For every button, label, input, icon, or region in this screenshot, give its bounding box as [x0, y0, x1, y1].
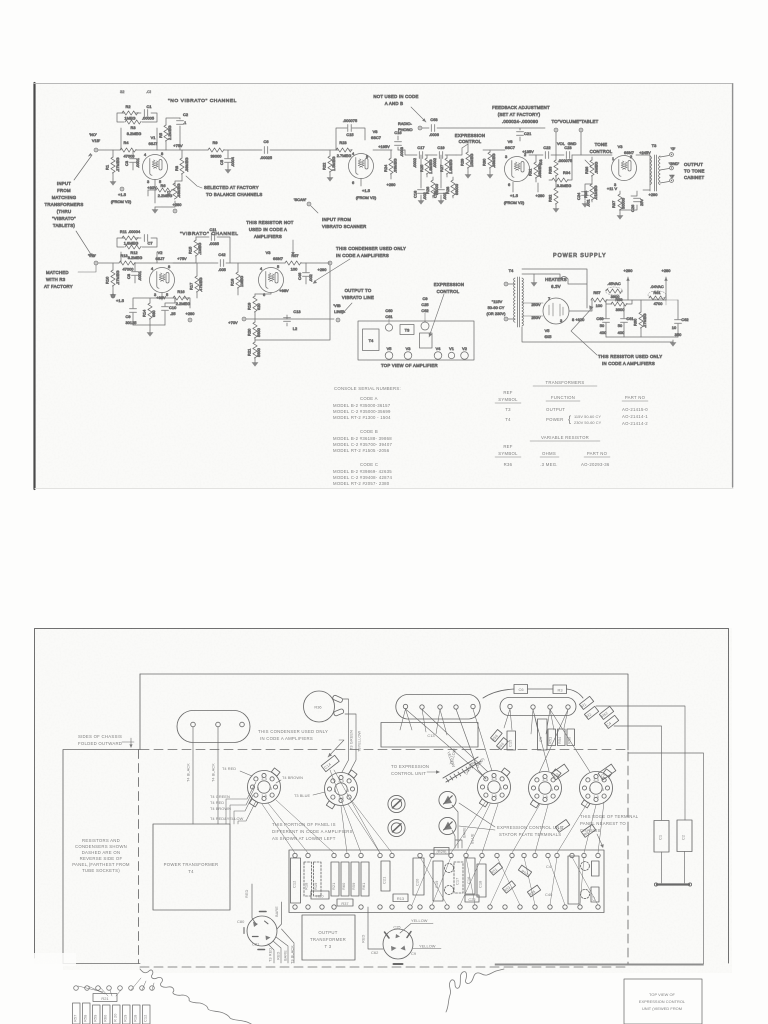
wire plate V8 to coupling [373, 149, 405, 151]
tube socket V2 layout [580, 769, 613, 808]
wire T4 black pair [193, 727, 218, 824]
svg-text:.002: .002 [308, 274, 313, 282]
tube V3 [612, 144, 637, 187]
svg-text:2.2MEG: 2.2MEG [176, 301, 191, 306]
sheet right edge [732, 84, 734, 487]
note sides of chassis folded outward [78, 734, 122, 746]
svg-text:R57: R57 [73, 1015, 78, 1022]
svg-text:C61: C61 [385, 314, 392, 319]
resistor R57 psu [591, 290, 666, 308]
capacitor C63 [431, 125, 434, 132]
svg-text:47000: 47000 [123, 154, 135, 159]
svg-text:R18: R18 [230, 279, 235, 286]
svg-text:C62: C62 [371, 950, 378, 955]
svg-text:CODE A: CODE A [360, 396, 378, 401]
svg-text:V5: V5 [545, 328, 550, 333]
svg-text:PANEL,(FARTHEST FROM: PANEL,(FARTHEST FROM [72, 862, 130, 867]
fold line dashed bottom [140, 966, 628, 968]
resistor R14 [142, 303, 157, 325]
outer border [35, 629, 729, 964]
svg-text:+30V: +30V [147, 185, 157, 190]
svg-text:FOLDED OUTWARD: FOLDED OUTWARD [78, 741, 122, 746]
svg-text:.0002: .0002 [412, 158, 417, 168]
svg-text:R 20: R 20 [113, 1013, 118, 1022]
capacitor C13 box [381, 723, 478, 748]
svg-text:NOT USED IN CODE: NOT USED IN CODE [373, 94, 418, 99]
svg-text:C62: C62 [681, 317, 688, 322]
svg-text:OUTPUT: OUTPUT [684, 162, 703, 167]
resistor R21 under box [93, 994, 117, 1002]
capacitor C62 psu [672, 300, 689, 337]
svg-text:R21: R21 [101, 996, 108, 1001]
svg-text:STATOR PLATE TERMINALS: STATOR PLATE TERMINALS [499, 832, 561, 837]
svg-text:CONDENSERS SHOWN: CONDENSERS SHOWN [75, 844, 127, 849]
resistor R10 to ground [105, 263, 121, 299]
wire bus into V8 [336, 149, 352, 151]
node VIB input terminal [88, 253, 98, 265]
resistor R5 [158, 118, 180, 150]
svg-text:R61: R61 [653, 290, 660, 295]
ground psu [670, 340, 677, 347]
note to expression control unit [391, 764, 429, 776]
svg-text:DASHED ARE ON: DASHED ARE ON [82, 850, 121, 855]
svg-text:T4 GREEN: T4 GREEN [210, 794, 230, 799]
svg-text:R11 .00004: R11 .00004 [120, 229, 141, 234]
resistor R19 dashed [313, 862, 321, 896]
svg-text:R18: R18 [133, 1015, 138, 1022]
svg-text:RED: RED [276, 951, 281, 960]
svg-text:AO-21414-2: AO-21414-2 [622, 421, 648, 426]
svg-text:2: 2 [487, 786, 489, 791]
label C4 [546, 864, 552, 869]
white underlying paper [34, 970, 403, 1024]
capacitor C18 panel [477, 864, 486, 897]
svg-text:R8: R8 [174, 166, 179, 171]
svg-text:R27: R27 [439, 165, 444, 172]
chassis outline top [140, 674, 628, 750]
sheet bottom edge [35, 488, 733, 490]
resistor R24 [383, 150, 398, 179]
strip wires [78, 978, 154, 996]
svg-text:C63: C63 [430, 117, 437, 122]
svg-text:C81: C81 [252, 942, 259, 947]
svg-text:C80: C80 [237, 919, 245, 924]
tube socket V4 layout [478, 768, 511, 807]
hole [454, 705, 458, 709]
svg-text:10: 10 [672, 325, 677, 330]
svg-text:T4 BROWN: T4 BROWN [210, 806, 231, 811]
svg-text:2.2MEG: 2.2MEG [158, 193, 173, 198]
svg-text:CABINET: CABINET [684, 175, 704, 180]
svg-text:+280: +280 [387, 182, 397, 187]
svg-text:WITH R3: WITH R3 [46, 277, 66, 282]
hole [548, 705, 552, 709]
svg-text:+280: +280 [173, 202, 183, 207]
label T3 BLACK [290, 945, 295, 964]
svg-text:1 6: 1 6 [491, 793, 497, 798]
svg-text:TUBE SOCKETS): TUBE SOCKETS) [82, 868, 120, 873]
svg-text:T3 BLUE: T3 BLUE [294, 793, 310, 798]
capacitor C14 [321, 755, 339, 771]
resistor R50 board [567, 729, 575, 746]
svg-text:T3 RED: T3 RED [268, 948, 273, 962]
svg-text:R30: R30 [482, 158, 487, 166]
svg-text:PART NO: PART NO [625, 395, 646, 400]
resistor R50 rotated [489, 863, 502, 875]
capacitor C60 psu [596, 304, 609, 337]
resistor R28 [452, 177, 454, 198]
svg-text:R34: R34 [563, 170, 571, 175]
svg-text:C2: C2 [681, 835, 686, 840]
svg-text:.0001: .0001 [135, 158, 140, 168]
label RED vertical [244, 889, 249, 898]
note this resistor used only [571, 305, 662, 366]
socket C80 C81 [237, 912, 277, 950]
svg-text:C60: C60 [596, 316, 604, 321]
capacitor C60 C61 can [385, 308, 393, 331]
svg-text:400: 400 [600, 330, 607, 335]
resistor R18 under [133, 1005, 141, 1024]
svg-text:C26: C26 [630, 205, 635, 212]
svg-text:4700: 4700 [654, 301, 664, 306]
svg-text:AT FACTORY: AT FACTORY [44, 284, 73, 289]
svg-text:6X5: 6X5 [544, 334, 551, 339]
svg-text:2.7MEG: 2.7MEG [337, 153, 352, 158]
capacitor C3 [124, 150, 140, 170]
svg-text:V5: V5 [387, 346, 392, 351]
label T4 BROWN [210, 806, 231, 811]
svg-text:V3: V3 [618, 144, 623, 149]
svg-text:PART NO: PART NO [587, 451, 608, 456]
svg-text:R36: R36 [504, 462, 513, 467]
hole [191, 722, 196, 727]
svg-text:AS SHOWN AT LOWER LEFT: AS SHOWN AT LOWER LEFT [272, 836, 336, 841]
svg-text:REVERSE SIDE OF: REVERSE SIDE OF [80, 856, 123, 861]
svg-text:.39MEG: .39MEG [537, 163, 542, 178]
oblong hole middle [396, 695, 480, 720]
resistor R6 [148, 183, 175, 198]
tube V3 [404, 346, 412, 359]
svg-text:3: 3 [560, 318, 562, 323]
capacitor C19 panel [433, 861, 443, 901]
svg-text:+280: +280 [536, 193, 546, 198]
svg-text:FROM: FROM [57, 188, 71, 193]
svg-text:+70V: +70V [228, 320, 238, 325]
svg-text:THIS PORTION OF PANEL IS: THIS PORTION OF PANEL IS [272, 822, 336, 827]
svg-text:6SC7: 6SC7 [505, 145, 515, 150]
svg-text:VIBRATO LINE: VIBRATO LINE [342, 295, 374, 300]
svg-text:R21: R21 [331, 883, 336, 890]
svg-text:R25: R25 [419, 165, 424, 172]
label YELLOW b [419, 944, 436, 949]
svg-text:.000075: .000075 [558, 158, 572, 163]
svg-text:R15: R15 [188, 247, 193, 254]
capacitor C26 bypass [620, 191, 644, 212]
hole [420, 705, 424, 709]
svg-text:+280: +280 [662, 268, 672, 273]
svg-text:1.8MEG: 1.8MEG [124, 241, 139, 246]
svg-text:R36: R36 [314, 705, 321, 710]
wire main bus vibrato [98, 262, 330, 264]
svg-text:680: 680 [151, 310, 156, 317]
hole [508, 704, 512, 708]
svg-text:TO"VOLUME"TABLET: TO"VOLUME"TABLET [551, 119, 598, 124]
capacitor C16 [394, 130, 404, 157]
svg-text:BARE: BARE [274, 906, 279, 917]
svg-text:{: { [568, 414, 571, 424]
svg-text:5: 5 [602, 787, 604, 792]
svg-text:.3MEG: .3MEG [594, 162, 599, 174]
capacitor C5 board [538, 719, 548, 750]
svg-text:PANEL NEAREST TO: PANEL NEAREST TO [580, 821, 626, 826]
svg-text:35000: 35000 [621, 197, 626, 209]
svg-text:R19: R19 [247, 303, 252, 310]
svg-text:.25: .25 [170, 311, 176, 316]
svg-text:HEATERS: HEATERS [545, 277, 567, 282]
svg-text:R4: R4 [123, 140, 129, 145]
wire arrow to VIB [76, 231, 92, 256]
svg-text:6SJ7: 6SJ7 [155, 256, 164, 261]
chassis outline box [358, 321, 474, 360]
capacitor C17 [419, 152, 422, 159]
capacitor C1 tubular [654, 821, 669, 853]
capacitor C22 [538, 145, 551, 165]
svg-text:YELLOW: YELLOW [419, 944, 436, 949]
svg-text:.0001: .0001 [137, 271, 142, 281]
svg-text:(OR 230V): (OR 230V) [486, 311, 506, 316]
svg-text:CONTROL: CONTROL [437, 289, 460, 294]
wire main bus no-vib [98, 149, 336, 151]
wire fans oblong to sockets [400, 709, 492, 776]
svg-text:6SC7: 6SC7 [371, 135, 381, 140]
svg-text:3 4: 3 4 [491, 776, 497, 781]
svg-text:T3 BLACK: T3 BLACK [290, 945, 295, 964]
svg-text:50-60 CY: 50-60 CY [488, 305, 505, 310]
transformer T3 box [400, 325, 414, 335]
capacitor C24 to ground [585, 184, 592, 200]
svg-text:R36: R36 [584, 167, 589, 174]
svg-text:C5: C5 [219, 160, 224, 165]
svg-text:30125: 30125 [125, 320, 136, 325]
output transformer T3 box [302, 915, 355, 960]
label T3 RED [268, 948, 273, 962]
svg-text:MODEL RT-2 #1505 -2056: MODEL RT-2 #1505 -2056 [333, 448, 390, 453]
svg-text:T4: T4 [505, 417, 511, 422]
svg-text:R33: R33 [548, 167, 553, 174]
svg-text:TONE: TONE [595, 142, 608, 147]
svg-text:C22: C22 [543, 145, 550, 150]
screw stud D stator [439, 817, 456, 834]
wire to vib line [255, 265, 334, 340]
svg-text:AO-20293-36: AO-20293-36 [581, 462, 610, 467]
node +1.5 FROM V2 [504, 182, 525, 205]
svg-text:R18: R18 [304, 883, 309, 890]
tone control pot [576, 142, 613, 208]
svg-text:INPUT FROM: INPUT FROM [322, 217, 351, 222]
svg-text:C3: C3 [124, 161, 129, 166]
capacitor C8 box rotated [598, 764, 616, 780]
resistor R8 [174, 150, 189, 181]
svg-text:R20: R20 [247, 328, 252, 336]
svg-text:AO-21415-0: AO-21415-0 [622, 407, 648, 412]
svg-text:THIS CONDENSER USED ONLY: THIS CONDENSER USED ONLY [258, 729, 328, 734]
svg-text:+98V: +98V [279, 288, 289, 293]
svg-text:6.3V: 6.3V [551, 284, 561, 289]
svg-text:C24: C24 [576, 192, 581, 200]
svg-text:6: 6 [352, 180, 354, 185]
heater circuit [522, 269, 587, 308]
svg-text:+11 V: +11 V [607, 186, 618, 191]
svg-text:MODEL B-2 #39869- 42635: MODEL B-2 #39869- 42635 [333, 469, 392, 474]
svg-text:R21: R21 [247, 349, 252, 356]
svg-text:32: 32 [120, 89, 124, 94]
wire volume lines [556, 132, 581, 155]
svg-text:MATCHING: MATCHING [52, 195, 77, 200]
svg-text:1MEG: 1MEG [239, 276, 244, 287]
svg-text:C12: C12 [143, 1015, 148, 1022]
resistor R15 [173, 237, 202, 263]
svg-text:T 3: T 3 [325, 944, 332, 949]
wire C1 C2 to bar [662, 852, 685, 884]
svg-text:5: 5 [366, 154, 368, 159]
svg-text:3: 3 [505, 154, 507, 159]
svg-text:EXPRESSION: EXPRESSION [455, 133, 485, 138]
svg-text:.0003: .0003 [399, 147, 404, 157]
svg-text:7: 7 [548, 296, 550, 301]
resistor R54 rotated [527, 885, 540, 897]
svg-text:6SN7: 6SN7 [624, 150, 634, 155]
resistor R65 dashed circle [580, 889, 589, 898]
svg-text:5600: 5600 [256, 327, 261, 337]
svg-text:115V 50-60 CY: 115V 50-60 CY [574, 414, 601, 419]
label 115V 50-60CY [486, 299, 506, 316]
node +1.5 (FROM V2) [111, 187, 132, 204]
wire plate bus [529, 154, 610, 156]
svg-text:MATCHED: MATCHED [46, 270, 69, 275]
svg-text:OUTPUT: OUTPUT [318, 930, 337, 935]
resistor R53 rotated [502, 881, 515, 893]
tube V1 [448, 346, 454, 359]
potentiometer R36 body [304, 691, 345, 722]
svg-text:C19: C19 [437, 145, 444, 150]
sheet paper [35, 83, 733, 488]
svg-text:.3 MEG.: .3 MEG. [540, 462, 558, 467]
svg-text:"VIBRATO": "VIBRATO" [52, 216, 76, 221]
capacitor C21 [517, 128, 532, 141]
svg-text:.45VAC: .45VAC [607, 281, 621, 286]
svg-text:"NO VIBRATO" CHANNEL: "NO VIBRATO" CHANNEL [168, 98, 237, 104]
svg-text:OHMS: OHMS [542, 451, 556, 456]
svg-text:POWER: POWER [546, 417, 563, 422]
svg-text:C20: C20 [415, 878, 420, 886]
svg-text:SYMBOL: SYMBOL [498, 397, 518, 402]
svg-text:R17: R17 [189, 283, 194, 290]
capacitor C7 panel [591, 887, 599, 902]
node SCAN terminal [294, 197, 318, 213]
svg-text:TRANSFORMERS: TRANSFORMERS [545, 380, 584, 385]
label YELLOW cable [448, 748, 457, 766]
svg-text:TABLETS): TABLETS) [53, 223, 76, 228]
svg-text:.CI: .CI [146, 89, 151, 94]
node +280 arrow [662, 268, 672, 300]
svg-text:R10: R10 [105, 276, 110, 284]
svg-text:.0006: .0006 [429, 132, 439, 137]
svg-text:V8: V8 [373, 129, 378, 134]
svg-text:T4 BLACK: T4 BLACK [211, 763, 216, 782]
strip terminals [74, 986, 79, 991]
svg-text:C25: C25 [393, 925, 400, 930]
hole [438, 705, 442, 709]
capacitor C5 to ground [219, 150, 235, 174]
resistor R58 under [83, 1003, 91, 1024]
capacitor C23 [558, 145, 572, 163]
svg-text:V1B': V1B' [92, 138, 101, 143]
svg-text:C46: C46 [297, 273, 302, 280]
svg-text:UNIT (VIEWED FROM: UNIT (VIEWED FROM [642, 1006, 682, 1011]
svg-text:C21: C21 [382, 877, 387, 884]
sheet left edge (dark) [33, 83, 35, 489]
resistor R61 dashed .04VAC [648, 284, 678, 306]
resistor R25 [426, 155, 428, 177]
capacitor C3 box rotated [551, 764, 569, 780]
top view of expression control box [624, 979, 702, 1024]
resistor R58 dashed .45VAC [606, 281, 623, 299]
wire run C right side [495, 753, 704, 964]
svg-text:R24: R24 [383, 164, 388, 172]
svg-text:T3: T3 [405, 328, 410, 333]
resistor R2 rotated [584, 706, 598, 719]
hole [403, 704, 407, 708]
tube V6 [505, 139, 530, 187]
svg-text:R3: R3 [557, 688, 562, 693]
hole [216, 722, 221, 727]
svg-text:R13: R13 [120, 253, 127, 258]
note this edge of terminal panel [580, 814, 639, 833]
capacitor C15 board [507, 731, 516, 750]
top sheet grain [35, 83, 733, 488]
node +1.5 [111, 294, 124, 303]
cable bundle to expression control [443, 757, 481, 782]
svg-text:350: 350 [675, 332, 682, 337]
resistor R37 panel box [337, 899, 353, 906]
svg-text:R57: R57 [593, 290, 600, 295]
svg-text:+75V: +75V [177, 256, 187, 261]
resistor R59 panel [351, 862, 359, 896]
resistor R63 dashed circle [445, 886, 454, 895]
resistor R13 panel box [393, 894, 408, 902]
wire bare right of C80 [277, 902, 282, 929]
oblong hole left [177, 711, 250, 743]
resistor R1 to ground [105, 150, 121, 179]
tube socket V1 layout [529, 769, 562, 808]
note output to vibrato line [342, 288, 374, 314]
resistor R31 [528, 155, 543, 182]
hole [566, 705, 570, 709]
svg-text:R31: R31 [528, 169, 533, 176]
tube V2 [150, 250, 175, 297]
svg-text:.04VAC: .04VAC [650, 284, 664, 289]
resistor R30 to ground [483, 150, 490, 172]
resistor R21 panel [331, 862, 339, 896]
svg-text:FEEDBACK ADJUSTMENT: FEEDBACK ADJUSTMENT [492, 105, 550, 110]
torn edge right side [446, 969, 504, 1012]
expression control potentiometer [455, 133, 496, 179]
svg-text:C22: C22 [468, 897, 475, 902]
capacitor C10 [162, 303, 178, 325]
svg-text:V3: V3 [266, 250, 271, 255]
resistor R18 dashed [304, 862, 312, 896]
svg-text:.27MEG: .27MEG [115, 157, 120, 172]
